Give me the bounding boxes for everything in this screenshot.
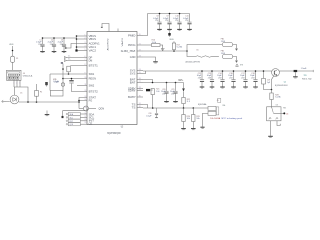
junction VBUS input [12, 50, 14, 52]
wire rail after Q4 [279, 70, 294, 72]
wire BAT pin1 [143, 80, 153, 83]
junction REGN-C6 [71, 78, 73, 80]
svg-text:PMID: PMID [128, 35, 136, 38]
pin VBUS stub [77, 38, 87, 40]
svg-text:2: 2 [16, 83, 17, 85]
wire D1 top [14, 87, 16, 95]
capacitor C23 sdrv [151, 89, 154, 95]
pin VBUS stub [77, 35, 87, 37]
svg-text:120Ω: 120Ω [221, 53, 226, 55]
wire ILIM_HIZ [143, 50, 187, 52]
svg-text:BQBLPHAA: BQBLPHAA [198, 103, 207, 106]
pin PROG stub [137, 44, 143, 46]
capacitor C11 [189, 14, 191, 22]
wire BAT+ riser [183, 83, 185, 89]
capacitor C3 [63, 38, 65, 44]
net flag I2C rail end [62, 111, 64, 116]
junction VBUS bus end [75, 49, 77, 51]
pin ILIM_HIZ stub [137, 50, 143, 52]
svg-text:VBUS: VBUS [89, 38, 97, 41]
shunt R29 [294, 70, 298, 72]
pin BAT stub [137, 82, 143, 84]
pin SW2 stub [77, 85, 87, 87]
junction BAT 152.5 [152, 82, 154, 84]
svg-text:REGN: REGN [89, 78, 97, 81]
wire BAT rail [143, 82, 184, 84]
wire ACDRV1 [66, 44, 87, 49]
svg-text:VAC2: VAC2 [89, 50, 97, 53]
junction ILIM a [173, 50, 175, 52]
ground GND pin [143, 57, 156, 61]
capacitor C21 [175, 83, 177, 91]
wire SW1 [50, 73, 87, 75]
pin BATP stub [137, 96, 143, 98]
net label box INT [66, 120, 68, 122]
net arrow DM down [235, 61, 238, 63]
resistor R24 [182, 115, 185, 122]
svg-text:AZ1045-04F.R7G: AZ1045-04F.R7G [186, 60, 201, 63]
wire INT [80, 120, 87, 122]
svg-text:25V: 25V [198, 77, 202, 79]
wire J5 pin2 to gnd [203, 113, 209, 126]
ferrite bead FB1 [222, 43, 232, 47]
svg-text:VAC2: VAC2 [121, 37, 124, 47]
wire BTST2 [72, 83, 88, 91]
svg-text:USB4-05-A: USB4-05-A [23, 74, 33, 77]
net stub ACDRV1 end [65, 47, 67, 49]
wire J1 pin2 [16, 80, 18, 87]
junction riser-REGN [62, 78, 64, 80]
wire BTST1 [70, 65, 87, 67]
ground GND left [46, 111, 48, 115]
junction TS 152.7 [152, 107, 154, 109]
junction SDRV blob [146, 89, 150, 91]
svg-text:D3: D3 [276, 105, 278, 107]
pin TS stub [137, 107, 143, 109]
svg-text:SW1: SW1 [89, 73, 95, 76]
wire VBUS input [12, 46, 14, 56]
svg-text:ILIM_HIZ: ILIM_HIZ [121, 50, 137, 53]
net arrow BAT+ down [182, 88, 185, 91]
svg-text:DNL: DNL [223, 105, 226, 107]
wire TS rail [143, 107, 208, 109]
wire Q4 emitter down [272, 75, 275, 89]
junction gnd rail a [27, 101, 29, 103]
junction SYS C19 [263, 70, 265, 72]
power flag PGND under C9 [169, 31, 171, 33]
svg-text:ACDRV2: ACDRV2 [106, 37, 109, 50]
svg-text:1: 1 [13, 83, 14, 85]
junction SYS C16 [233, 70, 235, 72]
connector J1 body [7, 70, 22, 80]
svg-text:25V: 25V [229, 77, 233, 79]
wire R24 stem [183, 108, 185, 128]
pin DM stub [67, 60, 88, 62]
wire RT1 right [273, 112, 284, 114]
ferrite bead FB2 [222, 55, 232, 59]
wire D- branch cont [212, 56, 219, 58]
junction RT1 out [283, 112, 285, 114]
pin ACDRV2 top stub [108, 29, 110, 32]
capacitor C9 [169, 14, 171, 22]
capacitor C15 bulb [61, 83, 64, 86]
svg-text:25V: 25V [218, 77, 222, 79]
wire RT1 leg2 [277, 121, 280, 126]
pin BAT stub [137, 79, 143, 81]
wire REGN [63, 78, 87, 80]
svg-text:PROG: PROG [128, 44, 136, 47]
svg-text:19: 19 [85, 122, 87, 124]
svg-text:10k 5403A: 10k 5403A [210, 117, 220, 120]
svg-text:25V: 25V [60, 44, 64, 46]
wire SYS pin2 join [143, 71, 146, 74]
wire rail to terminal [297, 70, 313, 72]
transistor Q4 [272, 69, 280, 77]
net flag ACDRV2 [101, 27, 103, 28]
ground shunt [294, 72, 296, 76]
junction TS 183.5 [183, 107, 185, 109]
wire D- branch [187, 51, 196, 57]
net flag DM [64, 59, 66, 61]
junction GND rail-STAT [78, 101, 80, 103]
capacitor C13 [211, 71, 213, 79]
wire L1 right riser [62, 64, 64, 91]
component TP small [218, 98, 221, 102]
svg-text:BQ25798RQMR: BQ25798RQMR [107, 133, 120, 135]
wire SYS rail [143, 70, 272, 72]
diode D1 TVS [10, 95, 19, 104]
pin TS stub [137, 104, 143, 106]
svg-text:GND: GND [130, 56, 136, 59]
svg-text:DM: DM [89, 60, 93, 63]
junction SYS C13 [211, 70, 213, 72]
junction VBUS bus 47 [76, 46, 78, 48]
capacitor C17 [245, 71, 247, 79]
net arrow VBUS short [46, 82, 48, 86]
svg-text:25V: 25V [155, 20, 159, 22]
inductor L1 [50, 91, 63, 97]
wire GND rail bottom-left [19, 101, 79, 103]
wire PMID riser to pin [143, 14, 148, 36]
capacitor C14 [222, 71, 224, 79]
svg-text:BAT+: BAT+ [179, 79, 184, 82]
wire STAT pair [79, 98, 87, 101]
junction BAT 175.5 [175, 82, 177, 84]
wire FB2 out [233, 57, 237, 61]
svg-text:QON: QON [99, 108, 105, 111]
wire FB1 out [233, 45, 237, 49]
svg-text:25V: 25V [185, 20, 189, 22]
svg-text:25V: 25V [251, 77, 255, 79]
pin SYS stub [137, 73, 143, 75]
svg-text:BTST2: BTST2 [89, 91, 99, 94]
wire Q4 gate stem [271, 90, 273, 108]
svg-text:BQ296002DSGR: BQ296002DSGR [275, 85, 288, 87]
svg-text:25V: 25V [162, 93, 166, 95]
svg-text:3: 3 [19, 83, 20, 85]
LED D2 bubble [79, 108, 83, 110]
wire arrow to R22 [183, 92, 185, 98]
ground J5 [200, 126, 204, 128]
svg-text:SDA: SDA [70, 113, 74, 116]
pin GND stub [137, 56, 143, 58]
junction PMID C9 [169, 13, 171, 15]
junction SYS C18 [255, 70, 257, 72]
pin SDRV stub [137, 90, 143, 92]
wire input cap rail [43, 37, 77, 39]
capacitor C12 [201, 71, 203, 79]
pin VAC2 stub [77, 50, 87, 52]
svg-text:BATP: BATP [128, 96, 136, 99]
capacitor C19 [263, 71, 265, 78]
svg-text:CE: CE [89, 123, 93, 126]
capacitor C2 [53, 38, 55, 44]
capacitor C1 [42, 38, 44, 44]
junction gnd rail b [36, 101, 38, 103]
svg-text:25V: 25V [50, 44, 54, 46]
capacitor C8 [159, 14, 161, 22]
capacitor C10 [179, 14, 181, 22]
svg-text:25V: 25V [208, 77, 212, 79]
junction SW1-C5 [68, 73, 70, 75]
net label box QON [66, 123, 68, 125]
svg-text:SDRV: SDRV [128, 90, 136, 93]
junction input rail C1 [42, 37, 44, 39]
svg-text:D4: D4 [286, 114, 288, 116]
junction Q4-R28 [271, 89, 273, 91]
varistor D5 squiggle [196, 56, 212, 58]
svg-text:25V: 25V [175, 20, 179, 22]
op-amp U5 IC body BQ25798 [87, 32, 137, 125]
resistor R28 [270, 93, 273, 100]
junction input rail C3 [63, 37, 65, 39]
wire R25 stem [192, 108, 194, 128]
wire SW1 to L1 [49, 74, 51, 91]
junction SYS C12 [201, 70, 203, 72]
resistor R17 [172, 43, 175, 49]
svg-text:SYS: SYS [130, 73, 136, 76]
capacitor C5 bootstrap1 [67, 66, 71, 72]
wire SDA [80, 113, 87, 115]
pin VAC1 stub [77, 46, 87, 48]
fuse F1 [11, 56, 15, 62]
svg-text:25V: 25V [171, 93, 175, 95]
net arrow left [7, 100, 10, 102]
net flag DP [64, 56, 66, 58]
resistor F2 [35, 91, 39, 97]
net label box SDA [66, 113, 68, 115]
wire ACDRV2 bracket [102, 24, 109, 29]
capacitor C6 bootstrap2 [71, 79, 73, 81]
svg-text:PG: PG [89, 100, 93, 103]
svg-text:VBUS: VBUS [9, 44, 14, 46]
wire QON [80, 123, 87, 125]
svg-text:BTST1: BTST1 [89, 65, 99, 68]
net flag R16 corner [161, 48, 164, 50]
wire fuse to J1 [12, 62, 14, 70]
junction PMID C8 [159, 13, 161, 15]
junction STAT tie [78, 100, 80, 102]
ground RT1 [268, 135, 273, 137]
resistor R25 [192, 115, 195, 122]
svg-text:TS: TS [132, 107, 136, 110]
wire PROG [143, 44, 151, 46]
junction SYS C14 [222, 70, 224, 72]
net arrow DP down [235, 49, 238, 51]
junction input rail C2 [53, 37, 55, 39]
wire SDRV link [150, 89, 153, 91]
wire F2 bottom [36, 96, 38, 102]
pin VAC2 top stub [117, 29, 119, 32]
svg-text:R30 4.7kΩ: R30 4.7kΩ [302, 78, 312, 80]
junction VBUS bus 39 [76, 38, 78, 40]
connector J5 ntc [208, 106, 216, 110]
svg-text:RT1: RT1 [283, 108, 286, 110]
net label box SCL [66, 117, 68, 119]
wire VBUS bus vertical [76, 36, 78, 51]
capacitor C16 [233, 71, 235, 79]
junction TS 193.3 [193, 107, 195, 109]
svg-text:15: 15 [85, 107, 87, 109]
wire RT1 leg1 [270, 121, 272, 136]
pin DP stub [67, 57, 88, 59]
wire J1 pin3 [19, 80, 21, 87]
junction SYS C17 [245, 70, 247, 72]
wire C23 down to TS [152, 95, 154, 108]
svg-text:0.1µF: 0.1µF [146, 116, 152, 118]
svg-text:QON: QON [70, 124, 74, 126]
svg-text:REGN: REGN [170, 39, 174, 41]
junction PMID C10 [179, 13, 181, 15]
wire R22 to TS [183, 104, 185, 108]
junction riser-BTST box [62, 68, 64, 70]
capacitor C20 [166, 83, 168, 91]
svg-text:25V: 25V [38, 44, 42, 46]
svg-text:NTC in battery pack: NTC in battery pack [222, 117, 244, 120]
svg-text:SW2: SW2 [89, 85, 95, 88]
wire F2 top [36, 84, 38, 91]
svg-text:25V: 25V [241, 77, 245, 79]
wire D+ branch [187, 45, 222, 52]
pin SDRV stub [137, 88, 143, 90]
resistor R16 [151, 44, 160, 47]
svg-text:120Ω: 120Ω [221, 41, 226, 43]
thermistor box RT1 [267, 107, 281, 121]
wire R16 to ILIM rail [160, 45, 163, 51]
pin PMID stub [137, 35, 143, 37]
junction BAT 166.5 [166, 82, 168, 84]
wire SCL [80, 116, 87, 118]
svg-text:2.2µF: 2.2µF [53, 81, 59, 83]
svg-text:25V: 25V [165, 20, 169, 22]
resistor R22 [182, 97, 185, 103]
wire STAT down to rail [78, 101, 80, 109]
svg-text:BAT: BAT [130, 82, 136, 85]
svg-text:1.5mΩ: 1.5mΩ [301, 68, 307, 70]
capacitor C18 [255, 71, 257, 79]
junction VBUS bus 36 [76, 35, 78, 37]
capacitor C26 [156, 108, 158, 113]
ground R25 [191, 128, 196, 130]
ground R24 [181, 128, 186, 130]
wire PMID rail [148, 13, 190, 15]
wire I2C top rail [63, 110, 88, 112]
net flag SW vertical top [61, 62, 63, 64]
junction ILIM b [186, 50, 188, 52]
pin SYS stub [137, 70, 143, 72]
wire J1 pin1 [13, 80, 15, 87]
wire J1 tie [14, 87, 28, 102]
net arrow SYS [236, 64, 239, 66]
wire TS pin1 corner [143, 105, 148, 109]
svg-text:D-: D- [68, 58, 70, 60]
